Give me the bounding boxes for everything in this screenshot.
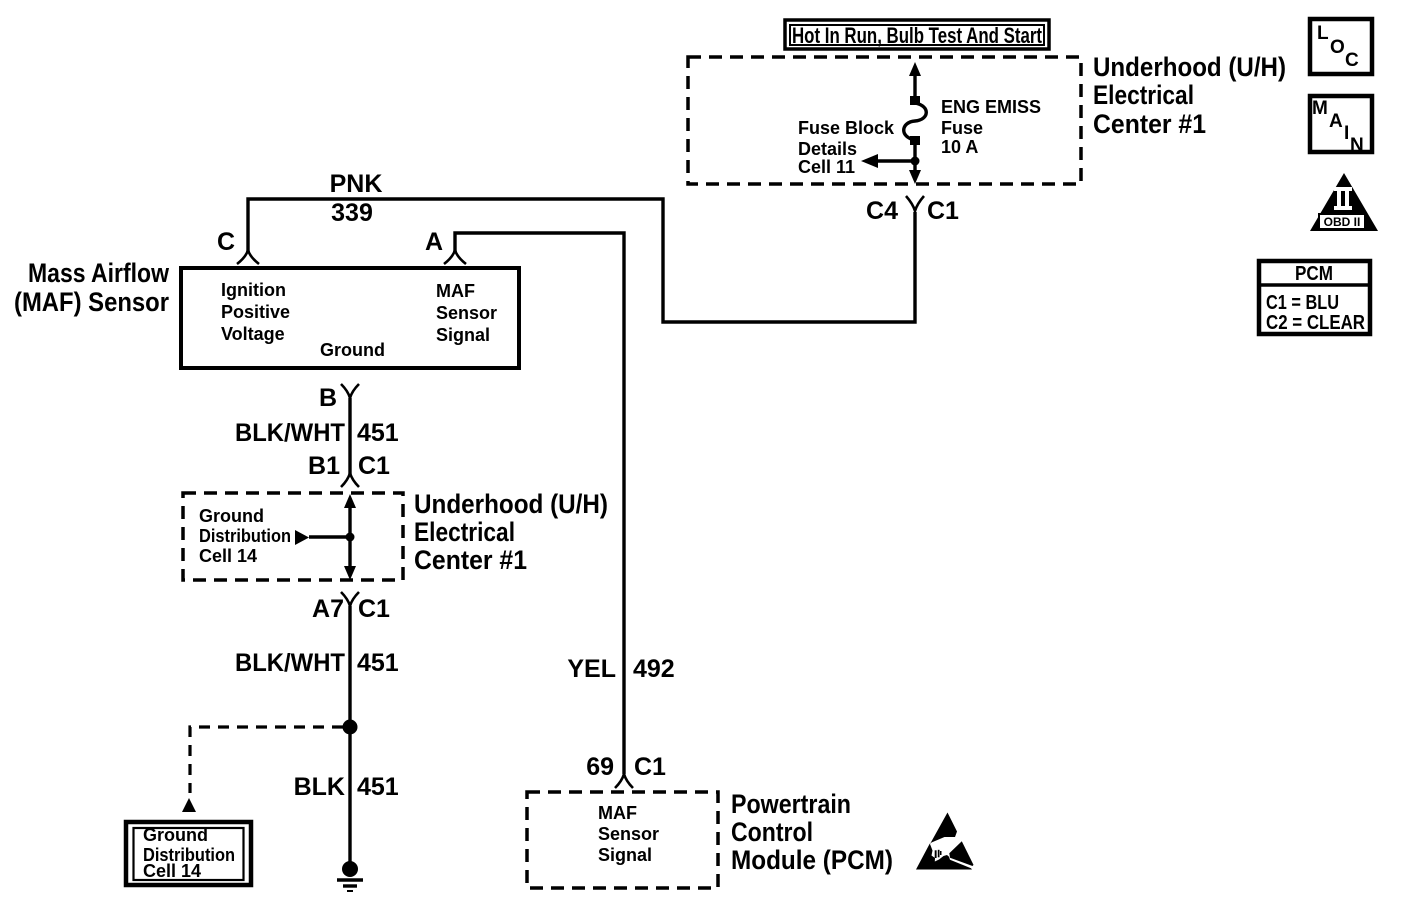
svg-text:Positive: Positive [221, 302, 290, 322]
svg-text:Signal: Signal [598, 845, 652, 865]
svg-text:Fuse Block: Fuse Block [798, 118, 895, 138]
svg-text:69: 69 [586, 753, 614, 781]
svg-text:C1: C1 [358, 595, 390, 623]
svg-text:Center #1: Center #1 [1093, 109, 1206, 139]
dashed wire to ground distribution [190, 727, 343, 793]
wire YEL 492 (MAF signal to PCM) [455, 233, 624, 774]
svg-text:C1: C1 [927, 197, 959, 225]
svg-text:451: 451 [357, 649, 399, 677]
svg-text:N: N [1350, 135, 1364, 156]
svg-text:C: C [217, 228, 235, 256]
ground distribution cell 14 reference box (bottom) [126, 822, 251, 885]
svg-text:C2 = CLEAR: C2 = CLEAR [1266, 312, 1365, 334]
svg-text:YEL: YEL [567, 655, 616, 683]
svg-text:Underhood (U/H): Underhood (U/H) [1093, 52, 1286, 82]
svg-text:Details: Details [798, 139, 857, 159]
svg-text:C1 = BLU: C1 = BLU [1266, 292, 1339, 314]
ground symbol G101 [342, 861, 358, 877]
svg-text:Ground: Ground [199, 506, 264, 526]
ESD sensitive symbol [916, 813, 974, 870]
connector C4/C1 [906, 196, 924, 211]
svg-text:A: A [1329, 111, 1343, 132]
svg-text:Cell 14: Cell 14 [199, 546, 257, 566]
junction node splice [343, 720, 358, 735]
svg-text:Distribution: Distribution [199, 526, 291, 546]
svg-text:C4: C4 [866, 197, 898, 225]
svg-text:PCM: PCM [1295, 263, 1333, 285]
svg-text:10 A: 10 A [941, 137, 978, 157]
svg-text:Sensor: Sensor [598, 824, 659, 844]
OBD II symbol [1310, 173, 1378, 231]
svg-text:Hot In Run, Bulb Test And Star: Hot In Run, Bulb Test And Start [792, 23, 1043, 48]
svg-text:Signal: Signal [436, 325, 490, 345]
svg-text:451: 451 [357, 773, 399, 801]
wire PNK 339 (fuse output to MAF ignition feed) [248, 199, 915, 322]
svg-text:C1: C1 [634, 753, 666, 781]
svg-text:Powertrain: Powertrain [731, 789, 851, 819]
wire vertical through box with arrows [348, 503, 351, 571]
svg-text:M: M [1312, 98, 1328, 119]
LOC symbol [1310, 19, 1372, 74]
svg-text:Electrical: Electrical [414, 517, 515, 547]
connector 69/C1 (PCM) [615, 774, 633, 788]
arrow into ground distribution box [182, 798, 196, 812]
svg-text:B1: B1 [308, 452, 340, 480]
PCM connector legend box [1259, 261, 1370, 334]
svg-text:I: I [1344, 123, 1349, 144]
connector B (MAF sensor pin B) [341, 384, 359, 398]
svg-text:L: L [1317, 23, 1329, 44]
svg-text:451: 451 [357, 419, 399, 447]
svg-text:Cell 14: Cell 14 [143, 861, 201, 881]
MAIN symbol [1310, 96, 1372, 156]
svg-text:PNK: PNK [330, 170, 383, 198]
svg-text:Voltage: Voltage [221, 324, 285, 344]
fuse feed wire with up arrow [913, 72, 916, 98]
svg-text:BLK: BLK [294, 773, 345, 801]
svg-text:B: B [319, 384, 337, 412]
svg-text:OBD II: OBD II [1324, 215, 1361, 229]
svg-text:(MAF) Sensor: (MAF) Sensor [14, 287, 169, 317]
svg-text:Electrical: Electrical [1093, 80, 1194, 110]
svg-text:C: C [1345, 50, 1359, 71]
svg-text:339: 339 [331, 199, 373, 227]
node junction in box [346, 533, 355, 542]
svg-text:Module (PCM): Module (PCM) [731, 845, 893, 875]
svg-text:C1: C1 [358, 452, 390, 480]
arrow to cell 14 [295, 530, 309, 545]
svg-text:Cell 11: Cell 11 [798, 157, 855, 177]
svg-text:Sensor: Sensor [436, 303, 497, 323]
connector A (MAF sensor pin A) [444, 250, 466, 264]
svg-text:Ground: Ground [143, 825, 208, 845]
branch arrow to fuse block details [876, 159, 915, 162]
svg-text:O: O [1330, 37, 1345, 58]
PCM dashed box [527, 792, 718, 888]
svg-text:Underhood (U/H): Underhood (U/H) [414, 489, 608, 519]
wire BLK/WHT 451 (MAF ground to UH elec center) [348, 398, 351, 474]
ground distribution cell 14 dashed box (UH electrical center) [183, 493, 403, 580]
hot in run bulb test and start feed box [785, 20, 1049, 49]
node junction fuse output [911, 157, 920, 166]
underhood electrical center 1 dashed box (fuse block) [688, 57, 1081, 184]
connector A7/C1 [341, 592, 359, 606]
svg-text:BLK/WHT: BLK/WHT [235, 419, 345, 447]
svg-text:Ground: Ground [320, 340, 385, 360]
svg-text:492: 492 [633, 655, 675, 683]
svg-text:A: A [425, 228, 443, 256]
wire BLK/WHT to ground [348, 606, 351, 862]
connector B1/C1 [341, 473, 359, 487]
svg-text:Mass Airflow: Mass Airflow [28, 258, 170, 288]
svg-text:BLK/WHT: BLK/WHT [235, 649, 345, 677]
fuse F1 ENG EMISS 10A [910, 96, 920, 105]
svg-text:MAF: MAF [598, 803, 637, 823]
svg-text:Center #1: Center #1 [414, 545, 527, 575]
MAF sensor box U1 [181, 268, 519, 368]
svg-text:ENG EMISS: ENG EMISS [941, 97, 1041, 117]
svg-text:A7: A7 [312, 595, 344, 623]
svg-text:Fuse: Fuse [941, 118, 983, 138]
svg-text:Control: Control [731, 817, 813, 847]
connector C (MAF sensor pin C) [237, 250, 259, 264]
svg-text:Ignition: Ignition [221, 280, 286, 300]
svg-text:MAF: MAF [436, 281, 475, 301]
fuse output wire with down arrow [913, 145, 916, 179]
